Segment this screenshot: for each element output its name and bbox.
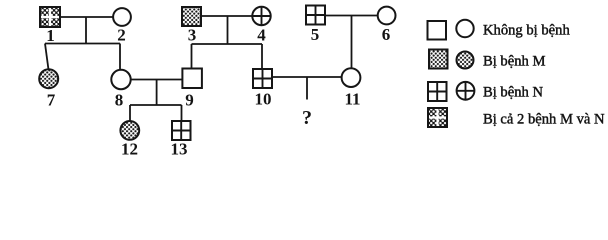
individual 13: male affected with N — [172, 121, 191, 140]
svg-text:6: 6 — [382, 25, 391, 44]
svg-text:7: 7 — [47, 91, 56, 110]
svg-text:4: 4 — [257, 26, 266, 45]
svg-text:13: 13 — [171, 140, 188, 159]
legend symbol both M and N male — [428, 108, 447, 127]
svg-text:2: 2 — [117, 26, 126, 45]
individual 10: male affected with N — [253, 69, 272, 88]
wire drop couple 3-4 — [227, 16, 229, 44]
svg-text:10: 10 — [255, 90, 272, 109]
wire drop couple 5-6 to 11 — [351, 16, 353, 69]
wire couple 5-6 — [325, 15, 378, 17]
individual 4: female affected with N — [252, 7, 270, 25]
wire drop to 9 — [191, 44, 193, 69]
svg-text:11: 11 — [344, 90, 360, 109]
wire drop to 13 — [181, 105, 183, 121]
wire sibship line of 12 and 13 — [130, 104, 182, 106]
wire drop couple 10-11 to ? — [306, 77, 308, 100]
svg-text:Bị bệnh N: Bị bệnh N — [483, 85, 543, 101]
legend symbol unaffected female — [456, 20, 473, 37]
individual 7: female affected with M — [39, 69, 58, 88]
wire drop couple 1-2 — [85, 17, 87, 44]
individual 1: male affected with both M and N — [40, 7, 60, 27]
individual 3: male affected with M — [182, 7, 201, 26]
svg-text:1: 1 — [46, 26, 55, 45]
wire couple 1-2 — [60, 16, 113, 18]
wire couple 3-4 — [201, 15, 252, 17]
individual 11: female unaffected — [342, 68, 361, 87]
wire drop to 10 — [261, 44, 263, 69]
svg-text:9: 9 — [185, 91, 194, 110]
svg-text:?: ? — [302, 107, 312, 129]
svg-text:3: 3 — [188, 26, 197, 45]
svg-text:Không bị bệnh: Không bị bệnh — [483, 23, 570, 39]
individual 8: female unaffected — [111, 70, 130, 89]
individual 5: male affected with N — [306, 6, 325, 25]
wire couple 10-11 — [272, 76, 342, 78]
svg-text:5: 5 — [311, 25, 320, 44]
svg-text:Bị cả 2 bệnh M và N: Bị cả 2 bệnh M và N — [483, 112, 605, 128]
wire drop to 7 — [45, 44, 49, 70]
svg-text:8: 8 — [115, 91, 124, 110]
legend symbol N male — [428, 82, 447, 101]
legend symbol unaffected male — [428, 21, 447, 40]
individual 6: female unaffected — [378, 7, 396, 25]
wire sibship line of 9 and 10 — [192, 43, 263, 45]
wire drop to 8 — [119, 44, 121, 71]
svg-text:12: 12 — [121, 140, 138, 159]
wire couple 8-9 — [131, 79, 183, 81]
wire sibship line of 7 and 8 — [45, 43, 120, 45]
individual 2: female unaffected — [113, 8, 131, 26]
individual 9: male unaffected — [182, 69, 202, 89]
individual 12: female affected with M — [120, 121, 139, 140]
svg-text:Bị bệnh M: Bị bệnh M — [483, 54, 545, 70]
wire drop to 12 — [129, 105, 131, 121]
legend symbol N female — [457, 82, 475, 100]
legend symbol M female — [457, 52, 474, 69]
legend symbol M male — [429, 50, 448, 69]
wire drop couple 8-9 — [156, 80, 158, 106]
